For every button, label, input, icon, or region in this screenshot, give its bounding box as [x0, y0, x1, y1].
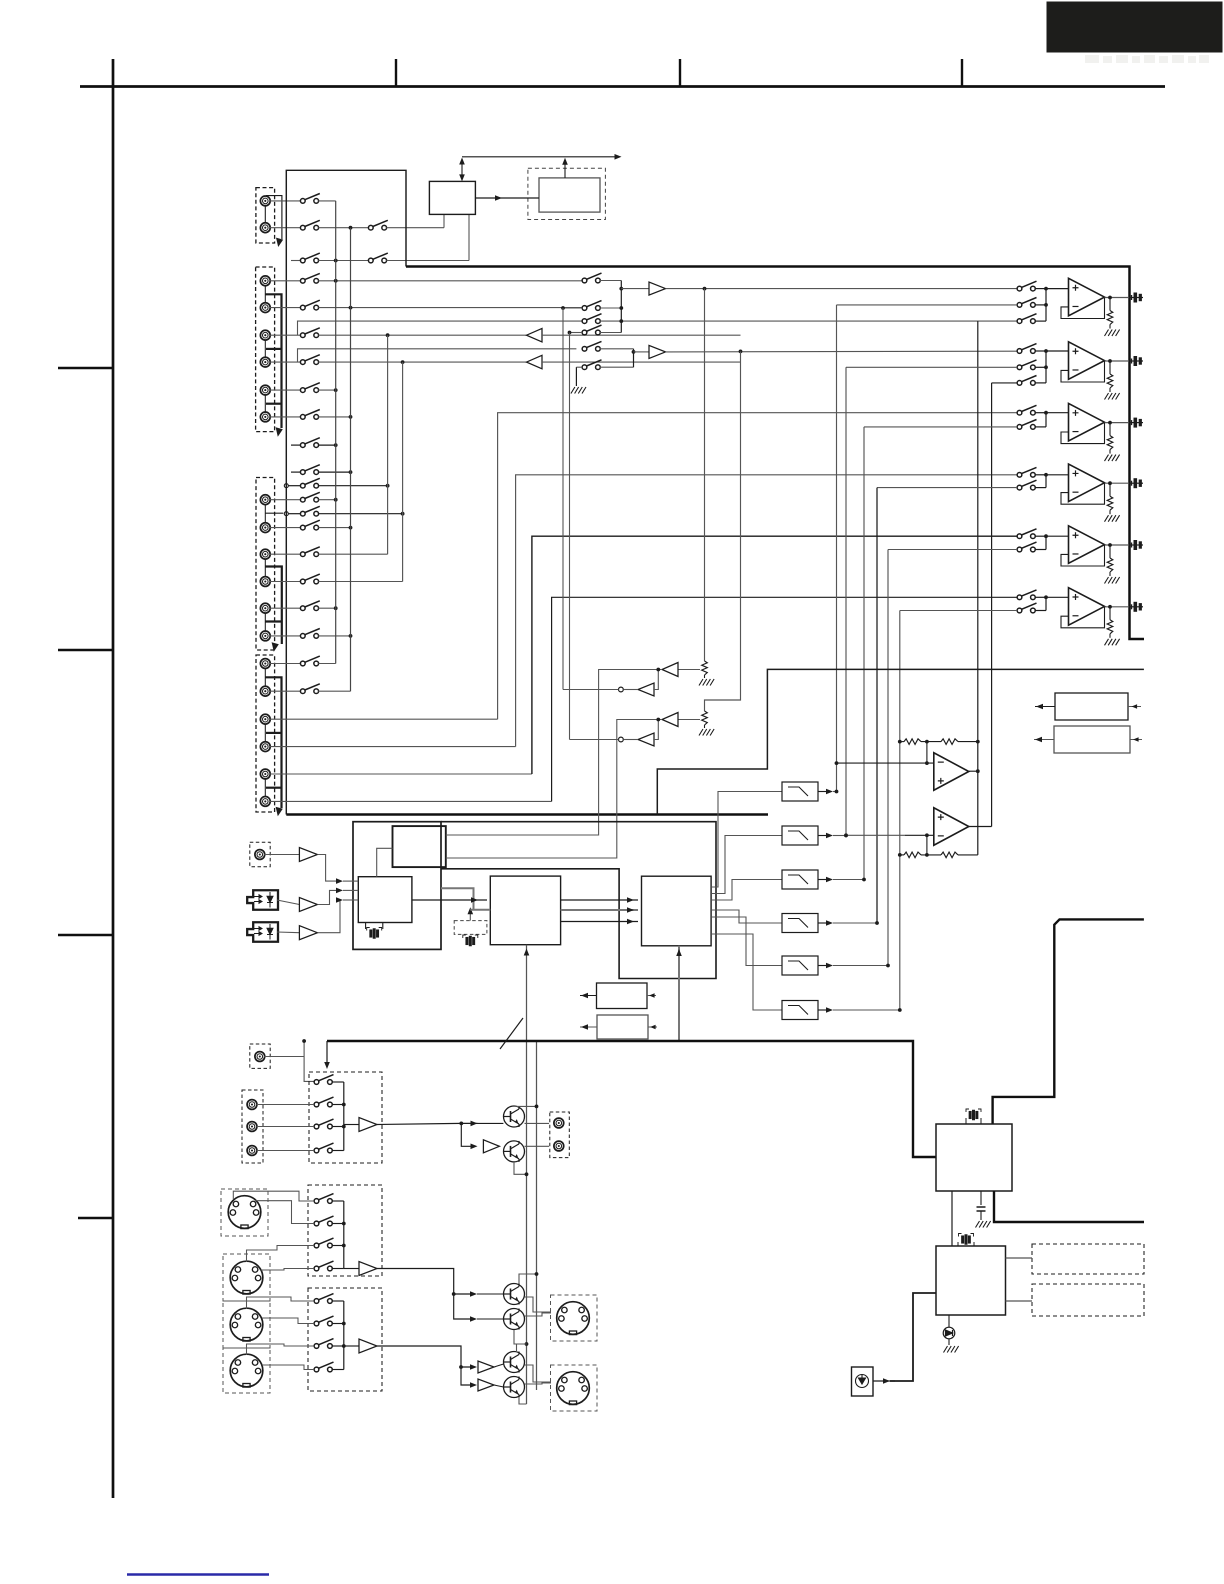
- wire tape monitor 2 input: [678, 719, 700, 721]
- wire amp1 + input: [1046, 288, 1069, 290]
- wire DIN3 b: [262, 1318, 314, 1324]
- resistor C2 in: [904, 852, 921, 858]
- branch drive 2b: [461, 1367, 472, 1385]
- wire join group 4: [1045, 475, 1047, 488]
- wire amp6 resistor to ground: [1109, 607, 1111, 620]
- photo sensor: [856, 1375, 869, 1388]
- open junction: [284, 484, 288, 488]
- wire MCU to panel 2: [1006, 1300, 1033, 1302]
- branch down to second channel: [461, 1123, 473, 1146]
- wire func ground drop: [575, 367, 577, 386]
- wire: [332, 1268, 344, 1270]
- wire: [332, 1104, 344, 1106]
- wire Q3/Q4 out to DIN5: [525, 1297, 552, 1312]
- dashed box DIN4: [223, 1348, 270, 1393]
- wire: [270, 527, 301, 529]
- wire main analog bus (thick) to right edge: [406, 267, 1144, 640]
- wire: [291, 471, 301, 473]
- wire control box pin 1: [443, 214, 445, 227]
- switch S3: [368, 220, 387, 230]
- jack IN15: [260, 714, 270, 724]
- wire Q2 emitter to rail: [514, 1162, 527, 1174]
- wire Q5 collector to rail: [517, 1344, 527, 1352]
- wire: [318, 416, 352, 418]
- capacitor C1: [977, 1207, 986, 1211]
- arrow control bus right: [615, 154, 622, 160]
- transistor Q2: [504, 1141, 525, 1162]
- switch row: [300, 601, 319, 611]
- wire filter 3 output: [818, 879, 828, 881]
- wire: [704, 725, 706, 728]
- box ctrl out 2: [597, 1015, 648, 1039]
- transistor Q1: [504, 1106, 525, 1127]
- switch input select amp1.2: [1017, 298, 1036, 308]
- wire inverter 1 input link: [654, 670, 658, 690]
- wire buffer1 input: [621, 288, 649, 290]
- wire: [270, 334, 301, 336]
- wire bypass corner up 2: [298, 349, 577, 362]
- dashed box CD jacks: [256, 267, 275, 432]
- switch row: [300, 656, 319, 666]
- box E DSP2 IC: [642, 876, 712, 946]
- wire bus D vertical: [402, 362, 404, 581]
- wire A2 row3 feed from zone vertical: [992, 382, 1018, 384]
- wire DIN1 a: [233, 1191, 314, 1201]
- DIN connector OUT1: [557, 1302, 590, 1335]
- wire jack link: [264, 778, 266, 797]
- wire: [1035, 412, 1046, 414]
- wire: [318, 200, 335, 202]
- connector OUT1: [1129, 293, 1143, 302]
- switch rec row 1: [300, 328, 319, 338]
- wire amp5 feedback loop: [1061, 545, 1105, 566]
- jack LIN3: [247, 1146, 257, 1156]
- dashed bus to front panel 1: [1032, 1244, 1144, 1274]
- wire amp4 + input: [1046, 474, 1069, 476]
- switch input select amp2.1: [1017, 344, 1036, 354]
- dashed box remote selector 1: [308, 1185, 382, 1276]
- wire: [270, 553, 301, 555]
- switch rsel2 3: [314, 1339, 333, 1349]
- wire buffer2 input: [634, 351, 650, 353]
- wire jack link: [264, 394, 266, 413]
- switch input select amp6.1: [1017, 590, 1036, 600]
- resistor C2 fb: [941, 852, 958, 858]
- crystal X1: [367, 928, 382, 939]
- wire join group 2: [1045, 351, 1047, 383]
- jack IN4: [260, 357, 270, 367]
- jack AUX: [255, 850, 265, 860]
- wire: [332, 1200, 344, 1202]
- page frame: left border line: [112, 59, 115, 1498]
- wire: [1035, 426, 1046, 428]
- wire: [1035, 549, 1046, 551]
- wire: [318, 471, 352, 473]
- wire: [1035, 304, 1046, 306]
- wire C2 output: [969, 826, 992, 828]
- wire: [270, 389, 301, 391]
- wire: [600, 280, 621, 282]
- wire Q6 emitter stub: [519, 1398, 527, 1404]
- wire DIN3 a: [247, 1297, 315, 1309]
- resistor amp6: [1107, 620, 1113, 634]
- switch S5: [368, 253, 387, 263]
- op-amp C2: [934, 808, 969, 846]
- wire: [973, 1242, 975, 1246]
- switch row REC1 L: [300, 438, 319, 448]
- wire amp3 output: [1105, 422, 1129, 424]
- wire: [478, 1122, 504, 1124]
- box MCU system control: [936, 1246, 1006, 1315]
- DIN connector RS1: [228, 1196, 261, 1229]
- switch func 4: [582, 325, 601, 335]
- wire: [958, 854, 978, 856]
- wire filter 1 output: [818, 791, 828, 793]
- wire box E out 1 to filter 1: [711, 792, 782, 888]
- control box U1: [429, 181, 475, 214]
- wire: [1035, 487, 1046, 489]
- wire: [270, 307, 301, 309]
- wire: [270, 227, 301, 229]
- wire sensor riser: [890, 1293, 936, 1381]
- resistor R-t2: [702, 711, 708, 725]
- connector OUT2: [1129, 357, 1143, 366]
- wire vertical filter bus 1: [836, 305, 838, 792]
- wire: [1035, 366, 1046, 368]
- wire phono jack link: [264, 205, 266, 223]
- inverter tape 2: [638, 733, 654, 746]
- wire: [318, 527, 352, 529]
- wire: [332, 1323, 344, 1325]
- wire arrow right into box 2: [1130, 739, 1142, 741]
- wire join box6: [343, 1201, 345, 1269]
- resistor C1 in: [904, 739, 921, 745]
- wire: [318, 499, 337, 501]
- switch rec out 1: [314, 1075, 333, 1085]
- wire inverter 2 input link: [654, 720, 658, 740]
- box DIR digital receiver: [936, 1124, 1012, 1191]
- wire: [270, 499, 301, 501]
- wire tape monitor 1 output to REC box: [446, 670, 662, 836]
- wire bus up into box E bottom: [678, 946, 680, 1041]
- jack IN16: [260, 742, 270, 752]
- switch input select amp2.3: [1017, 376, 1036, 386]
- wire jack link: [264, 339, 266, 358]
- wire control bus line: [462, 156, 618, 158]
- buffer remote 1: [359, 1262, 377, 1276]
- wire: [1035, 350, 1046, 352]
- switch row: [300, 478, 319, 488]
- wire: [477, 1293, 503, 1295]
- wire amp5 + input: [1046, 535, 1069, 537]
- wire to func return: [563, 689, 619, 691]
- switch row: [300, 520, 319, 530]
- wire amp3 + input: [1046, 412, 1069, 414]
- wire: [623, 739, 638, 741]
- ground flag TAPE2 box: [276, 807, 283, 816]
- wire: [958, 741, 978, 743]
- wire to func return 2: [570, 739, 619, 741]
- frame tick left 3: [58, 934, 113, 936]
- wire: [270, 635, 301, 637]
- wire output rail 1: [526, 1041, 528, 1404]
- dashed crystal box: [454, 921, 487, 935]
- ground amp5: [1105, 577, 1120, 584]
- resistor C1 fb: [941, 739, 958, 745]
- switch rsel 2: [314, 1216, 333, 1226]
- DIN connector RS2: [230, 1261, 263, 1294]
- buffer remote 2: [359, 1339, 377, 1353]
- wire to control box pin 2: [386, 260, 469, 262]
- wire to control box pin: [386, 227, 444, 229]
- jack LIN1: [247, 1100, 257, 1110]
- ground amp1: [1105, 330, 1120, 337]
- jack IN1: [260, 276, 270, 286]
- wire vertical filter bus 5: [887, 550, 889, 966]
- wire amp2 output: [1105, 360, 1129, 362]
- wire: [318, 280, 582, 282]
- wire jack to W3: [270, 773, 532, 775]
- dashed box remote selector 2: [308, 1288, 382, 1391]
- switch input select amp3.2: [1017, 420, 1036, 430]
- wire aux to box B: [318, 855, 337, 882]
- frame tick top 3: [961, 59, 963, 87]
- open circle out 1: [619, 687, 624, 692]
- ground DIR: [976, 1221, 991, 1228]
- wire DSP aux return: [441, 888, 474, 910]
- wire filter 2 output: [818, 835, 828, 837]
- comparator C1 summing chain: [898, 740, 902, 744]
- wire DIN4 a: [247, 1344, 315, 1355]
- jack IN8: [260, 523, 270, 533]
- open circle out 2: [619, 737, 624, 742]
- wire: [318, 663, 335, 665]
- wire vertical filter bus 4: [876, 488, 878, 923]
- switch row tape out R: [300, 574, 319, 584]
- optical connector OPT1: [247, 890, 278, 910]
- jack analog rec in: [250, 842, 270, 866]
- wire: [318, 260, 368, 262]
- wire buffer1 output long: [666, 288, 1018, 290]
- wire: [344, 1124, 359, 1126]
- jack PHONO L: [260, 196, 270, 206]
- filter LPF4: [782, 914, 818, 933]
- wire W1 tape return: [498, 413, 1018, 720]
- bus slash marker: [500, 1018, 523, 1049]
- open junction: [284, 512, 288, 516]
- wire W3 return: [532, 536, 1017, 774]
- box A record switch IC: [393, 826, 446, 867]
- switch input select amp6.2: [1017, 603, 1036, 613]
- buffer rec zone 1: [527, 328, 543, 342]
- wire join group 3: [1045, 413, 1047, 427]
- op-amp A3: [1069, 403, 1105, 441]
- wire MCU to panel 1: [1006, 1257, 1033, 1259]
- op-amp A4: [1069, 464, 1105, 502]
- buffer rec 2: [483, 1140, 499, 1153]
- filter LPF6: [782, 1001, 818, 1020]
- wire Q5/Q6 out to DIN6: [525, 1365, 552, 1382]
- wire filter 4 output: [818, 922, 828, 924]
- wire jack link: [264, 285, 266, 304]
- wire: [270, 416, 301, 418]
- wire amp2 feedback loop: [1061, 361, 1105, 382]
- wire amp4 resistor to ground: [1109, 483, 1111, 496]
- wire shield bus thick 2: [265, 677, 281, 808]
- wire: [494, 1385, 504, 1387]
- wire: [344, 1268, 359, 1270]
- wire: [600, 307, 621, 309]
- wire jack link: [264, 559, 266, 578]
- jack IN11: [260, 603, 270, 613]
- switch row REC1 R: [300, 465, 319, 475]
- wire zone vertical R: [991, 383, 993, 827]
- ground amp2: [1105, 393, 1120, 400]
- switch func 5: [582, 341, 601, 351]
- jack LINE: [255, 1052, 265, 1062]
- jack IN17: [260, 769, 270, 779]
- wire DIN2 b: [261, 1269, 314, 1271]
- switch S1 (phono L): [300, 194, 319, 204]
- ground amp4: [1105, 515, 1120, 522]
- buffer B1: [649, 282, 666, 295]
- wire MCU LED: [948, 1315, 950, 1327]
- wire: [921, 741, 941, 743]
- inverter tape 1: [638, 683, 654, 696]
- wire box B top link: [377, 848, 393, 876]
- buffer B2: [649, 345, 666, 358]
- switch rec out 3: [314, 1119, 333, 1129]
- crystal X2: [463, 935, 478, 946]
- wire jack to W1: [270, 718, 498, 720]
- ground flag CD box: [276, 427, 283, 436]
- resistor amp5: [1107, 558, 1113, 572]
- jack IN10: [260, 577, 270, 587]
- wire tape monitor 2 output to REC box: [446, 720, 662, 859]
- wire digital input bus (thick) from right edge: [993, 919, 1144, 1124]
- wire amp4 feedback loop: [1061, 483, 1105, 504]
- wire: [343, 880, 358, 882]
- jack LIN2: [247, 1122, 257, 1132]
- wire: [600, 366, 634, 368]
- wire: [704, 675, 706, 678]
- wire rec feed 2: [542, 361, 741, 363]
- wire shield bus thick: [265, 294, 281, 428]
- op-amp A1: [1069, 278, 1105, 316]
- wire opt2 to box B: [318, 900, 341, 933]
- wire DIR to MCU: [951, 1191, 953, 1246]
- wire: [1035, 320, 1046, 322]
- jack IN9: [260, 549, 270, 559]
- wire: [477, 1318, 503, 1320]
- box zone out 1: [1055, 693, 1128, 720]
- jack IN7: [260, 495, 270, 505]
- wire tape monitor 1 input: [678, 669, 700, 671]
- wire double arrow U1 top: [461, 160, 463, 178]
- switch rsel2 1: [314, 1294, 333, 1304]
- wire box E out 2 to filter 2: [711, 836, 782, 894]
- switch input select amp1.3: [1017, 314, 1036, 324]
- dashed box DIN6 out: [551, 1365, 598, 1411]
- dashed box line jacks 2: [242, 1090, 263, 1163]
- wire join box5: [343, 1082, 345, 1151]
- wire box A output 2: [446, 857, 617, 859]
- ground flag phono: [276, 238, 283, 247]
- box R3 DSP outline: [441, 822, 716, 979]
- ground MCU: [944, 1346, 959, 1353]
- switch rsel 4: [314, 1261, 333, 1271]
- wire join box7: [343, 1301, 345, 1370]
- jack IN2: [260, 303, 270, 313]
- optical connector OPT2: [247, 922, 278, 942]
- dashed box rec out selector: [309, 1072, 382, 1163]
- switch input select amp5.1: [1017, 529, 1036, 539]
- wire box E out 3 to filter 3: [711, 880, 782, 901]
- wire amp5 output: [1105, 544, 1129, 546]
- wire arrow right c1: [647, 995, 656, 997]
- wire shield bus thick J3: [265, 567, 282, 645]
- wire join group 5: [1045, 536, 1047, 549]
- wire bypass to selector A1: [600, 320, 1017, 322]
- wire rec out long: [377, 1123, 461, 1124]
- switch rsel 3: [314, 1238, 333, 1248]
- wire: [494, 1364, 504, 1367]
- op-amp A6: [1069, 588, 1105, 626]
- wire Q2 to jack: [525, 1145, 550, 1147]
- wire: [576, 366, 582, 368]
- dashed box display unit: [528, 168, 606, 219]
- crystal under box B: [366, 923, 383, 930]
- wire phono shield bracket: [266, 196, 282, 239]
- wire rec row 2: [318, 361, 526, 363]
- wire rec row 1: [318, 334, 526, 336]
- wire main lower bus (thick): [327, 1041, 936, 1157]
- DIN connector RS4: [230, 1354, 263, 1387]
- wire: [318, 444, 337, 446]
- connector OUT3: [1129, 418, 1143, 427]
- op-amp A5: [1069, 526, 1105, 564]
- switch func 1: [582, 273, 601, 283]
- switch input select amp3.1: [1017, 405, 1036, 415]
- wire amp2 resistor to ground: [1109, 361, 1111, 374]
- frame tick top 2: [679, 59, 681, 87]
- resistor amp2: [1107, 374, 1113, 388]
- wire join 2: [633, 349, 635, 367]
- display box U2: [539, 178, 600, 212]
- wire opt1: [277, 900, 299, 905]
- wire: [332, 1150, 344, 1152]
- wire: [289, 513, 301, 515]
- buffer opt2: [299, 926, 317, 940]
- wire W4 return: [552, 597, 1018, 801]
- wire vertical filter bus 6: [899, 611, 901, 1011]
- switch row: [300, 410, 319, 420]
- wire: [270, 690, 301, 692]
- DIN connector OUT2: [557, 1372, 590, 1405]
- wire: [264, 854, 299, 856]
- feed lines from mid verticals to selector rows: [837, 304, 1018, 306]
- buffer rec out: [359, 1118, 377, 1132]
- wire jack link: [264, 724, 266, 743]
- wire arrow left 2: [1034, 739, 1054, 741]
- wire jack link: [264, 504, 266, 523]
- wire bus up into DSP bottom: [526, 945, 528, 1041]
- ground func selector: [571, 387, 586, 394]
- wire: [318, 513, 404, 515]
- wire output rail 2: [536, 1041, 538, 1390]
- wire rec monitor return 2: [569, 333, 571, 740]
- ground amp6: [1105, 639, 1120, 646]
